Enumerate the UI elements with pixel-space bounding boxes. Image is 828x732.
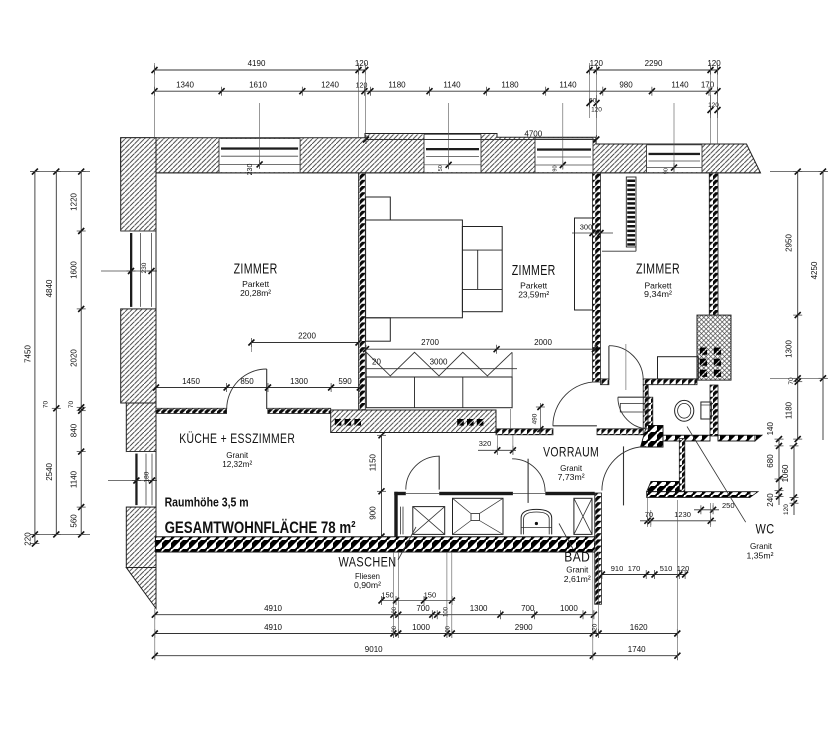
svg-text:2000: 2000: [534, 338, 552, 347]
svg-text:1180: 1180: [785, 401, 794, 419]
chimney flue symbol: [714, 370, 721, 377]
toilet cistern: [701, 402, 711, 419]
bed pillows / headboard: [462, 227, 502, 312]
door to BAD swing arc: [512, 459, 545, 492]
svg-text:Raumhöhe 3,5 m: Raumhöhe 3,5 m: [165, 495, 249, 510]
outer wall left bottom: [126, 507, 156, 567]
svg-text:220: 220: [24, 532, 33, 546]
svg-text:1,35m²: 1,35m²: [747, 551, 774, 561]
svg-text:100: 100: [444, 606, 450, 617]
leader line WC: [687, 427, 746, 523]
svg-text:VORRAUM: VORRAUM: [543, 444, 599, 460]
chimney block with flues: [697, 315, 731, 380]
bottom dim row B: [155, 633, 678, 635]
left dim column middle 4840/2540: [55, 172, 57, 535]
svg-text:Granit: Granit: [566, 565, 589, 575]
svg-text:900: 900: [369, 506, 378, 520]
svg-text:120: 120: [356, 83, 368, 90]
extension lines from top dims to wall: [154, 63, 156, 138]
flue symbol kitchen east group: [467, 419, 474, 426]
dim 4700 over ZIMMER2: [366, 139, 596, 141]
window dim line w/ rotated 180: [108, 480, 157, 482]
WC left wall corner block: [641, 425, 664, 447]
window width dim line: [219, 163, 300, 165]
svg-text:WASCHEN: WASCHEN: [339, 554, 397, 570]
svg-text:ZIMMER: ZIMMER: [512, 262, 556, 279]
flue symbol kitchen west group: [345, 419, 352, 426]
dim row under ZIMMER1: 1450 850 1300 590: [156, 387, 360, 389]
right dims top connector: [770, 171, 828, 173]
window dim line w/ rotated 230: [101, 270, 157, 272]
door ZIMMER2 leaf: [553, 425, 597, 427]
dim 300 wardrobe: [572, 232, 613, 234]
svg-text:70: 70: [43, 401, 50, 409]
dim 1150/900 kitchen-vorraum: [381, 435, 383, 536]
svg-text:50: 50: [438, 165, 444, 171]
svg-text:1220: 1220: [70, 192, 79, 210]
niche shelf rect near WC door: [620, 403, 645, 412]
wardrobe ZIMMER2 east wall: [575, 218, 593, 310]
svg-text:ZIMMER: ZIMMER: [636, 261, 680, 278]
svg-text:12,32m²: 12,32m²: [222, 459, 252, 469]
svg-text:23,59m²: 23,59m²: [518, 290, 549, 300]
entrance door leaf: [623, 446, 625, 505]
chimney flue symbol: [700, 359, 707, 366]
dim 70/1230 entrance: [640, 520, 716, 522]
outer wall right: [709, 173, 718, 315]
chimney flue symbol: [714, 359, 721, 366]
window in top wall x424-481: [424, 134, 481, 172]
dim row B (full top chain): [155, 90, 718, 92]
svg-text:180: 180: [144, 471, 151, 482]
svg-text:700: 700: [521, 604, 535, 613]
svg-text:1240: 1240: [321, 81, 339, 90]
door ZIMMER2 swing arc: [553, 382, 597, 426]
svg-text:2700: 2700: [421, 338, 439, 347]
door to BAD leaf: [527, 459, 529, 503]
svg-text:4910: 4910: [264, 604, 282, 613]
svg-text:1140: 1140: [443, 81, 461, 90]
svg-text:1140: 1140: [70, 470, 79, 488]
svg-text:510: 510: [660, 564, 673, 573]
interior face line below top wall: [121, 172, 761, 174]
svg-text:2540: 2540: [45, 462, 54, 480]
svg-text:70: 70: [645, 510, 653, 519]
dim row A right: 120 2290 120: [590, 69, 718, 71]
svg-text:120: 120: [707, 59, 721, 68]
svg-text:1000: 1000: [560, 604, 578, 613]
svg-text:140: 140: [766, 421, 775, 435]
BAD east wall (striped): [595, 493, 602, 604]
WC door swing arc: [618, 397, 650, 429]
svg-text:560: 560: [70, 514, 79, 528]
svg-text:100: 100: [392, 606, 398, 617]
svg-text:KÜCHE + ESSZIMMER: KÜCHE + ESSZIMMER: [179, 429, 295, 446]
window width dim line: [535, 164, 593, 166]
svg-text:230: 230: [247, 164, 254, 176]
window in top wall x219-300: [219, 139, 300, 173]
svg-text:590: 590: [338, 377, 352, 386]
svg-text:4840: 4840: [45, 279, 54, 297]
svg-text:240: 240: [766, 493, 775, 507]
ZIMMER3 south wall along WC top: [653, 379, 697, 385]
right sub-chain 1060/120: [793, 446, 795, 498]
washing machine with X: [413, 507, 445, 535]
vorraum north wall west segment: [496, 429, 553, 435]
kitchen north thick wall with flues: [331, 410, 496, 433]
svg-text:910: 910: [611, 564, 624, 573]
door ZIMMER3 leaf: [608, 346, 610, 380]
toilet bowl: [675, 400, 694, 421]
bench ZIMMER3: [658, 357, 699, 379]
svg-text:2900: 2900: [515, 623, 533, 632]
window centre extension line: [448, 103, 450, 169]
WC door leaf: [618, 396, 650, 398]
svg-text:GESAMTWOHNFLÄCHE 78 m²: GESAMTWOHNFLÄCHE 78 m²: [165, 518, 356, 537]
door ZIMMER1 swing arc: [227, 369, 267, 409]
svg-text:60: 60: [589, 98, 597, 105]
outer wall bottom (dense stripes): [155, 537, 601, 552]
dim 490 rotated near vorraum door: [539, 403, 541, 435]
svg-text:100: 100: [392, 625, 398, 636]
svg-text:1230: 1230: [674, 510, 691, 519]
svg-text:1620: 1620: [630, 623, 648, 632]
svg-text:1180: 1180: [501, 81, 519, 90]
svg-text:680: 680: [766, 454, 775, 468]
svg-text:1340: 1340: [176, 81, 194, 90]
vorraum east wall (striped): [679, 439, 685, 492]
entrance step block (dense): [647, 482, 680, 492]
wall between ZIMMER2 and ZIMMER3 (striped): [593, 173, 601, 382]
wash-bath block top edge thick segments: [394, 492, 397, 537]
sink: [521, 509, 552, 534]
svg-text:1300: 1300: [290, 377, 308, 386]
window in top wall x646-702: [647, 145, 703, 172]
bed nightstand top: [366, 197, 391, 220]
svg-text:2950: 2950: [785, 234, 794, 252]
bottom dim row C: [155, 655, 678, 657]
svg-text:WC: WC: [756, 521, 775, 537]
vorraum north wall east segment: [597, 429, 647, 435]
svg-text:3000: 3000: [430, 358, 448, 367]
door ZIMMER1 leaf: [266, 369, 268, 409]
dim 250 entrance: [694, 509, 719, 511]
svg-text:700: 700: [416, 604, 430, 613]
svg-text:90: 90: [552, 165, 558, 171]
svg-text:2200: 2200: [298, 332, 316, 341]
line at vorraum band start: [509, 409, 511, 429]
right sub-chain 140/680/240: [778, 439, 780, 491]
dim 320 vorraum: [478, 449, 516, 451]
svg-text:120: 120: [355, 59, 369, 68]
svg-text:BAD: BAD: [564, 549, 590, 565]
door to WASCHEN swing arc: [406, 456, 439, 489]
bottom dim row A: [155, 614, 594, 616]
svg-text:170: 170: [628, 564, 641, 573]
wall below WC east part (dense) with break: [718, 435, 755, 441]
svg-text:1300: 1300: [785, 340, 794, 358]
flue symbol kitchen east group: [477, 419, 484, 426]
svg-text:20: 20: [372, 358, 381, 367]
right dim column outer 4250: [822, 172, 824, 379]
window left wall upper: [121, 231, 156, 309]
left dim top connector: [30, 171, 90, 173]
svg-text:9010: 9010: [365, 645, 383, 654]
wall between vorraum nook and WC vertical: [643, 385, 648, 434]
chimney flue symbol: [700, 348, 707, 355]
window in top wall x535-593: [535, 138, 593, 172]
outer wall left upper: [121, 138, 156, 231]
outer wall left lower-step: [126, 403, 156, 452]
radiator ZIMMER3: [626, 177, 636, 247]
wall between ZIMMER1 and ZIMMER2 (striped): [359, 173, 366, 410]
leader line BAD: [559, 524, 573, 550]
door ZIMMER3 swing arc: [609, 346, 643, 380]
wall below WC west part (dense): [663, 435, 710, 441]
south wall right of entrance (dense): [647, 492, 750, 498]
svg-text:320: 320: [479, 439, 492, 448]
svg-text:1300: 1300: [470, 604, 488, 613]
sub dim 120 below row B right: [710, 95, 712, 118]
chimney flue symbol: [714, 348, 721, 355]
sub dims 60/120 below row B left of 2290: [589, 95, 591, 118]
svg-text:7,73m²: 7,73m²: [558, 472, 585, 482]
svg-text:4250: 4250: [810, 261, 819, 279]
svg-text:150: 150: [381, 591, 394, 600]
dim 2700/2000 in ZIMMER2: [366, 348, 595, 350]
svg-text:850: 850: [240, 377, 254, 386]
bed nightstand bottom: [366, 318, 391, 341]
svg-text:2290: 2290: [645, 59, 663, 68]
window centre extension line: [673, 103, 675, 172]
WC east wall: [710, 385, 718, 436]
svg-text:1140: 1140: [559, 81, 577, 90]
left dim column inner segments: [80, 172, 82, 535]
svg-text:70: 70: [68, 401, 75, 409]
svg-text:2020: 2020: [70, 349, 79, 367]
svg-text:1450: 1450: [182, 377, 200, 386]
svg-text:ZIMMER: ZIMMER: [234, 261, 278, 278]
outer wall left middle: [121, 309, 156, 403]
bottom mini dims 150 150: [380, 600, 455, 602]
svg-text:1740: 1740: [628, 645, 646, 654]
flue symbol kitchen east group: [457, 419, 464, 426]
svg-text:2,61m²: 2,61m²: [564, 574, 591, 584]
window centre extension line: [562, 103, 564, 169]
svg-text:1600: 1600: [70, 261, 79, 279]
outer wall left bottom diagonal break: [126, 568, 156, 609]
svg-text:250: 250: [722, 501, 735, 510]
svg-text:840: 840: [70, 423, 79, 437]
bottom extension lines: [154, 608, 156, 660]
wardrobe ZIMMER2 (zigzag front): [366, 352, 512, 376]
left dim column outer 7450/220: [34, 172, 36, 544]
flue symbol kitchen west group: [335, 419, 342, 426]
svg-text:7450: 7450: [24, 345, 33, 363]
svg-text:4190: 4190: [248, 59, 266, 68]
window width dim line: [424, 164, 481, 166]
svg-text:1140: 1140: [671, 81, 689, 90]
svg-text:1180: 1180: [388, 81, 406, 90]
svg-text:980: 980: [619, 81, 633, 90]
bed: [366, 220, 463, 318]
svg-text:490: 490: [531, 413, 538, 424]
svg-text:1000: 1000: [412, 623, 430, 632]
dim 2200 in ZIMMER1: [251, 342, 358, 344]
bath cupboard with X: [574, 498, 592, 534]
door ZIMMER3 extension line: [625, 344, 627, 390]
interior face line left: [155, 173, 157, 537]
dim row BAD: 910 170 510 120: [602, 574, 685, 576]
svg-text:1150: 1150: [369, 453, 378, 471]
svg-text:4910: 4910: [264, 623, 282, 632]
shower tray: [453, 498, 504, 534]
chimney flue symbol: [700, 370, 707, 377]
svg-text:120: 120: [783, 504, 790, 515]
svg-text:9,34m²: 9,34m²: [644, 289, 672, 299]
svg-text:150: 150: [424, 591, 437, 600]
outer wall top (hatched, with stepped outer face): [121, 134, 761, 173]
svg-text:20,28m²: 20,28m²: [240, 288, 271, 298]
right dim column inner 2950/1300/70/1180: [797, 172, 799, 440]
entrance door swing arc: [602, 447, 646, 491]
svg-text:0,90m²: 0,90m²: [354, 580, 381, 590]
door to WASCHEN leaf: [438, 456, 440, 490]
svg-text:100: 100: [446, 625, 452, 636]
ZIMMER3 south wall segments: [601, 379, 609, 385]
leader line WASCHEN: [398, 527, 416, 560]
svg-text:170: 170: [701, 81, 715, 90]
svg-text:1610: 1610: [249, 81, 267, 90]
svg-text:120: 120: [677, 564, 690, 573]
svg-text:230: 230: [141, 262, 148, 273]
svg-text:4700: 4700: [524, 130, 542, 139]
wall ZIMMER1 / kitchen with door opening: [156, 408, 227, 413]
window left wall lower: [126, 452, 156, 508]
svg-text:300: 300: [580, 223, 593, 232]
window centre extension line: [259, 103, 261, 168]
dim row A left: 4190 120: [155, 69, 366, 71]
svg-text:Granit: Granit: [750, 541, 773, 551]
svg-text:1060: 1060: [781, 464, 790, 482]
flue symbol kitchen west group: [354, 419, 361, 426]
WC left wall: [648, 397, 653, 425]
window width dim line: [647, 167, 703, 169]
